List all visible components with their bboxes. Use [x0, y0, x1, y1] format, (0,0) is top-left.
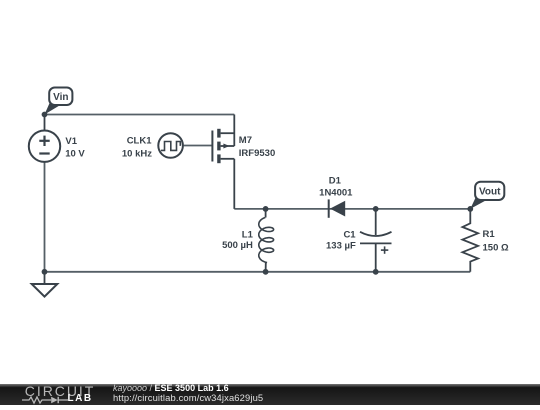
ground: [32, 272, 58, 297]
svg-text:R1: R1: [483, 229, 496, 240]
svg-text:Vout: Vout: [479, 187, 501, 198]
inductor L1: [259, 209, 274, 272]
svg-text:C1: C1: [343, 230, 356, 241]
svg-text:Vin: Vin: [53, 92, 68, 103]
svg-text:133 µF: 133 µF: [326, 240, 356, 251]
node dot ground: [42, 269, 48, 275]
node dot C1 bottom: [373, 269, 379, 275]
node dot C1 top: [373, 206, 379, 212]
logo doodle resistor+diode: [21, 395, 71, 405]
wire top rail Vin to M7 source: [45, 114, 235, 116]
svg-text:500 µH: 500 µH: [222, 240, 253, 251]
wire V1 bottom to ground rail: [44, 162, 46, 272]
footer line 1: [113, 384, 229, 393]
capacitor C1: [360, 209, 392, 272]
footer line 2: [113, 393, 263, 402]
svg-text:CLK1: CLK1: [127, 135, 153, 146]
node dot Vin: [42, 112, 48, 118]
svg-text:M7: M7: [239, 135, 252, 146]
node flag Vout: [470, 182, 504, 209]
svg-text:V1: V1: [65, 136, 77, 147]
diode D1: [329, 199, 346, 217]
wire bottom rail: [45, 271, 471, 273]
svg-text:D1: D1: [329, 176, 342, 187]
svg-text:10 V: 10 V: [65, 148, 85, 159]
svg-text:IRF9530: IRF9530: [239, 148, 275, 159]
voltage source V1: [29, 115, 60, 162]
footer bar: [0, 384, 540, 406]
svg-text:L1: L1: [242, 229, 254, 240]
wire CLK1 to gate: [184, 145, 213, 147]
svg-text:150 Ω: 150 Ω: [483, 243, 509, 254]
clock source CLK1: [158, 133, 183, 158]
CircuitLab logo: [25, 384, 95, 398]
node dot L1 top: [263, 206, 269, 212]
wire middle rail drain to Vout: [234, 208, 470, 210]
resistor R1: [462, 209, 478, 272]
node dot Vout: [467, 206, 473, 212]
node dot L1 bottom: [263, 269, 269, 275]
node flag Vin: [45, 88, 73, 115]
transistor M7 PMOS: [212, 115, 234, 209]
svg-text:1N4001: 1N4001: [319, 188, 353, 199]
svg-text:10 kHz: 10 kHz: [122, 149, 152, 160]
